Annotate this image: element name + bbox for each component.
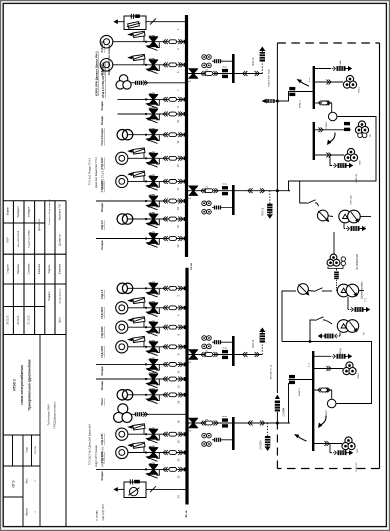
svg-text:РФООЛ: РФООЛ — [34, 445, 37, 453]
NBS-1 sectional breaker to ring — [314, 101, 338, 121]
svg-text:26.02.02: 26.02.02 — [18, 315, 20, 325]
svg-text:НЦО ОЦТ ОРН: НЦО ОЦТ ОРН — [102, 504, 105, 521]
svg-text:пв05: пв05 — [149, 194, 155, 197]
svg-text:пв05: пв05 — [149, 320, 155, 323]
svg-text:ТМ: ТМ — [370, 134, 372, 137]
svg-text:твлм: твлм — [222, 67, 227, 69]
NBS-1 fuse row below TML feeder — [330, 155, 353, 168]
mid station transformer — [327, 232, 345, 291]
svg-text:ВЛ-6кВ ПС-19: ВЛ-6кВ ПС-19 — [271, 364, 273, 379]
capacitor/arrester cubicle bay feeder 1 — [113, 14, 186, 30]
svg-text:пв05: пв05 — [149, 301, 155, 304]
svg-text:твлм: твлм — [222, 184, 227, 186]
feeder bay 20 — [116, 442, 187, 461]
svg-text:ПЯВ2-01: ПЯВ2-01 — [356, 173, 358, 183]
svg-text:СТД-1600: СТД-1600 — [100, 40, 104, 52]
svg-text:Заказчик и ТЭС: Заказчик и ТЭС — [59, 203, 61, 220]
svg-text:Должность: Должность — [59, 233, 61, 245]
svg-text:ТМ: ТМ — [364, 332, 366, 335]
T-1 bay disconnectors — [300, 181, 319, 206]
svg-text:Согласно Энергонадзора: Согласно Энергонадзора — [49, 198, 51, 224]
T-3 bay — [310, 317, 359, 342]
NBS-1 transformer feeder y129.8 — [314, 121, 369, 138]
svg-text:КЦДС ОРН Резерв: КЦДС ОРН Резерв — [95, 445, 98, 467]
svg-text:Формат: Формат — [7, 206, 10, 215]
feeder bay 8 — [116, 336, 187, 355]
feeder bay 14 — [117, 388, 187, 404]
station transformer bay feeder 7 — [116, 75, 187, 89]
svg-text:Резерв: Резерв — [100, 366, 104, 375]
svg-text:ТСН-1в1 Резерв ТСН-1: ТСН-1в1 Резерв ТСН-1 — [89, 157, 92, 185]
svg-text:ОГЭ: ОГЭ — [12, 480, 16, 487]
svg-text:пв05: пв05 — [149, 107, 155, 110]
svg-text:ТМЛ-1: ТМЛ-1 — [359, 86, 361, 93]
reserve input feeder (upper, y=190.7) — [187, 184, 291, 219]
bus 1 (upper main busbar 1c.sh) — [185, 15, 188, 257]
T-2 fuse row — [348, 297, 370, 312]
svg-text:ТМЛ-2: ТМЛ-2 — [358, 372, 360, 379]
T-2 bay — [282, 284, 364, 342]
svg-text:АТЦ-2,0 4ЛРН-6,0: АТЦ-2,0 4ЛРН-6,0 — [102, 446, 105, 467]
feeder bay 5 — [100, 54, 187, 73]
svg-text:пв05: пв05 — [149, 388, 155, 391]
svg-text:Подлинник СВАВ: Подлинник СВАВ — [28, 230, 31, 248]
ring wire lower — [282, 340, 372, 403]
wire reserve path upper — [276, 117, 376, 193]
tie feeder to overhead line (upper, y=73.5) — [187, 47, 266, 84]
svg-text:ППСД Джалилнефть: ППСД Джалилнефть — [53, 401, 57, 428]
svg-text:ОМР: ОМР — [7, 237, 10, 243]
svg-text:Резерв: Резерв — [100, 203, 104, 212]
svg-text:Резерв: Резерв — [100, 240, 104, 249]
svg-text:Стадион: Стадион — [7, 264, 10, 274]
title block texts — [7, 198, 62, 515]
svg-text:ТСН-2в2 ТНь-2 Джал.2в4 Шавал: ТСН-2в2 ТНь-2 Джал.2в4 Шавал.2в4 — [89, 424, 92, 465]
svg-text:Резерв: Резерв — [100, 471, 104, 480]
svg-text:Тюбюкская УМН: Тюбюкская УМН — [47, 404, 51, 425]
svg-text:пв05: пв05 — [149, 128, 155, 131]
svg-text:Фролова: Фролова — [17, 263, 20, 273]
svg-text:Резерв: Резерв — [100, 381, 104, 390]
svg-text:ПКО-10: ПКО-10 — [262, 207, 265, 216]
feeder bay 6 — [116, 317, 187, 336]
svg-text:С4-ОМ4: С4-ОМ4 — [260, 440, 263, 450]
svg-text:БЯВС-1: БЯВС-1 — [300, 99, 302, 108]
T-1 fuse row — [344, 223, 366, 231]
svg-text:26.02.02: 26.02.02 — [8, 315, 10, 325]
capacitor/arrester cubicle bay feeder 24 — [113, 479, 187, 497]
svg-text:Проверил: Проверил — [17, 206, 20, 218]
direction arrow on NBS-2 — [294, 434, 307, 441]
svg-text:Дата: Дата — [58, 317, 61, 323]
tie feeder to overhead line (lower, y=354.5) — [187, 328, 265, 367]
svg-text:схема электроснабжения: схема электроснабжения — [20, 365, 24, 405]
NBS-2 fuse feeder low — [330, 444, 353, 456]
feeder bay 13 — [117, 128, 187, 144]
svg-text:пв05: пв05 — [149, 152, 155, 155]
feeder bay 9 — [118, 93, 188, 109]
svg-text:АТЦ 2,3 СТЦ 3,0 Т-ИСКАБ: АТЦ 2,3 СТЦ 3,0 Т-ИСКАБ — [101, 62, 105, 98]
svg-text:Инв-ЭКО ВНЕШ: Инв-ЭКО ВНЕШ — [18, 231, 20, 247]
load labels — [100, 40, 104, 480]
feeder bay 18 — [116, 424, 187, 443]
NBS-2 fuse feeder — [313, 354, 352, 359]
feeder bay 17 — [116, 171, 187, 190]
internal bus NBS-2 — [312, 351, 314, 451]
svg-text:АТЦ-2,3 СТЦ-3,0: АТЦ-2,3 СТЦ-3,0 — [102, 168, 105, 188]
svg-text:ТМЛ: ТМЛ — [360, 160, 362, 165]
direction arrow on NBS-1 — [297, 79, 310, 86]
svg-text:утвердил: утвердил — [28, 206, 31, 217]
NBS-2 TML transformer feeder low — [313, 437, 355, 450]
svg-text:СТД-1250: СТД-1250 — [100, 345, 104, 357]
svg-text:ПКО-10: ПКО-10 — [252, 57, 255, 66]
svg-text:ТМЛ: ТМЛ — [357, 448, 359, 453]
svg-text:пв05: пв05 — [149, 358, 155, 361]
svg-text:СТД-1250: СТД-1250 — [100, 157, 104, 169]
svg-text:Взаимодейств: Взаимодейств — [58, 288, 61, 303]
feeder bay 23 — [96, 232, 187, 248]
svg-text:Фамилия: Фамилия — [38, 263, 41, 274]
feeder number labels — [177, 28, 181, 498]
svg-text:пв05: пв05 — [149, 463, 155, 466]
svg-text:пв05: пв05 — [149, 427, 155, 430]
NBS-1 fuse feeder to aux line — [314, 66, 353, 71]
svg-text:ЗЯТАБ: ЗЯТАБ — [339, 60, 342, 68]
svg-text:Джал.1в2 Шавал.1в2 РН-1: Джал.1в2 Шавал.1в2 РН-1 — [95, 157, 98, 188]
svg-text:КЭРО ОРН Джавал Шавал РН-1: КЭРО ОРН Джавал Шавал РН-1 — [95, 51, 99, 96]
wire reserve path lower — [276, 383, 290, 425]
NBS-1 transformer feeder y155 — [314, 148, 358, 161]
svg-text:Джалильнефть: Джалильнефть — [361, 281, 364, 299]
feeder bay 11 — [118, 107, 188, 123]
svg-text:пв05: пв05 — [149, 282, 155, 285]
svg-text:пв05: пв05 — [149, 35, 155, 38]
feeder bay 2 — [117, 282, 187, 298]
svg-text:ПЯВ2Т: ПЯВ2Т — [326, 121, 328, 129]
svg-text:ПЯВ2-03: ПЯВ2-03 — [356, 462, 358, 472]
svg-text:Стад: Стад — [27, 447, 29, 453]
title block — [3, 201, 66, 527]
svg-text:2с.ш: 2с.ш — [184, 510, 188, 517]
feeder bay 12 — [96, 372, 187, 388]
NBS-1 incoming with CT — [262, 87, 314, 104]
NBS-2 incoming with CT — [289, 375, 314, 384]
svg-text:пв05: пв05 — [149, 58, 155, 61]
svg-text:Резерв: Резерв — [100, 101, 104, 110]
svg-text:пв05: пв05 — [149, 93, 155, 96]
svg-text:твлм: твлм — [222, 348, 227, 350]
svg-text:пв05: пв05 — [149, 446, 155, 449]
feeder bay 19 — [96, 194, 187, 210]
T-1 transformer — [328, 210, 371, 223]
svg-text:Подпись: Подпись — [49, 291, 51, 301]
feeder bay 15 — [116, 148, 187, 167]
svg-text:Принципиальная однолинейная: Принципиальная однолинейная — [27, 359, 31, 410]
internal bus NBS-1 — [313, 66, 315, 109]
NBS-1 TML-1 transformer feeder — [314, 75, 357, 88]
svg-text:СТД-1600: СТД-1600 — [100, 326, 104, 338]
svg-text:ТЦАС ТСН-6 со склада: ТЦАС ТСН-6 со склада — [107, 45, 111, 75]
svg-text:Должность: Должность — [38, 218, 41, 231]
svg-text:СТД-1600: СТД-1600 — [100, 306, 104, 318]
svg-text:1с.ш: 1с.ш — [189, 263, 193, 270]
svg-text:ПКО-10: ПКО-10 — [252, 339, 255, 348]
svg-text:С4-ОМ4: С4-ОМ4 — [284, 407, 286, 416]
svg-text:пв05: пв05 — [149, 372, 155, 375]
svg-text:Листов: Листов — [27, 507, 29, 515]
section labels left column — [89, 157, 106, 521]
feeder bay 22 — [96, 463, 187, 479]
svg-text:ТСН-2: ТСН-2 — [100, 398, 104, 406]
svg-text:ПЯВ2Т: ПЯВ2Т — [326, 409, 328, 417]
svg-text:ЛЭП-6кВ: ЛЭП-6кВ — [351, 195, 353, 204]
svg-text:Резерв: Резерв — [100, 116, 104, 125]
T-3 fuse row — [318, 333, 340, 339]
svg-text:РЯВ2Д: РЯВ2Д — [340, 348, 342, 356]
svg-text:Подпись: Подпись — [48, 264, 51, 274]
svg-text:твлм: твлм — [222, 416, 227, 418]
down arrow on NBS-2 — [318, 416, 326, 429]
svg-text:Соколова: Соколова — [28, 263, 31, 274]
svg-text:СТД-1250: СТД-1250 — [100, 433, 104, 445]
svg-text:пв05: пв05 — [149, 175, 155, 178]
svg-text:27.12.02: 27.12.02 — [29, 315, 31, 325]
svg-text:со склада: со склада — [97, 510, 99, 521]
svg-text:пв05: пв05 — [149, 232, 155, 235]
feeder bay 21 — [117, 212, 187, 228]
feeder bay 10 — [96, 358, 187, 374]
reserve input feeder (lower, y=423) — [187, 416, 290, 451]
svg-text:АТД-2,5: АТД-2,5 — [100, 289, 104, 299]
svg-text:ТСН-1 Резерв: ТСН-1 Резерв — [100, 128, 104, 146]
bus 2 (lower main busbar 2c.sh) — [185, 268, 188, 505]
feeder bay 4 — [116, 297, 187, 316]
feeder bay 3 — [100, 31, 187, 50]
svg-text:БЯВС-2: БЯВС-2 — [299, 387, 301, 396]
NBS-2 TML-2 transformer feeder — [313, 362, 356, 375]
svg-text:НТЭС-3: НТЭС-3 — [12, 379, 16, 391]
T-1 disconnect switch — [317, 210, 329, 222]
LEP 6kV vertical line — [275, 43, 280, 423]
svg-text:ПС 35/6(10)кВ: ПС 35/6(10)кВ — [356, 253, 359, 270]
down arrow below NBS-1 — [327, 133, 335, 146]
station transformer bay feeder 16 — [114, 404, 187, 423]
header labels top-left — [95, 45, 112, 98]
svg-text:ОЛБ-Л ЛЭП-35кВ: ОЛБ-Л ЛЭП-35кВ — [269, 69, 271, 87]
dashed substation enclosure — [277, 43, 379, 469]
NBS-2 sectional breaker to ring — [313, 388, 336, 408]
svg-text:Фамилия: Фамилия — [58, 263, 61, 274]
svg-text:пв05: пв05 — [149, 340, 155, 343]
svg-text:АТД-2,5: АТД-2,5 — [100, 220, 104, 230]
svg-text:пв05: пв05 — [149, 212, 155, 215]
